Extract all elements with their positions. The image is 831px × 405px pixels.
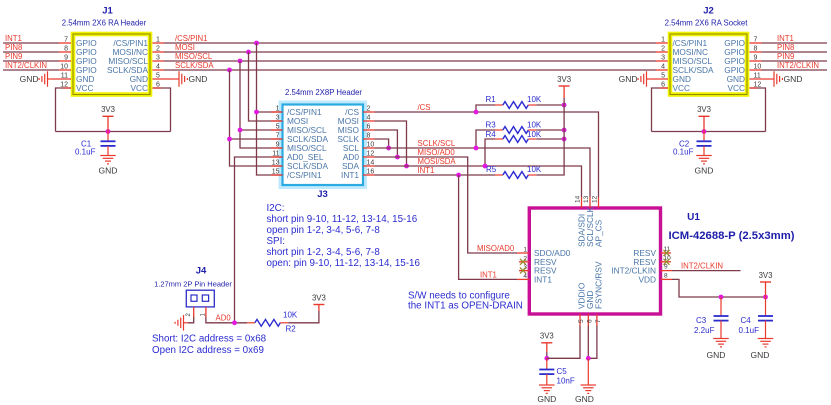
wire J2 pin 11 to ground — [750, 78, 770, 80]
svg-text:MISO/AD0: MISO/AD0 — [477, 244, 515, 253]
wire J1 pin 11 to ground — [52, 78, 71, 80]
svg-text:/CS/PIN1: /CS/PIN1 — [287, 170, 322, 180]
wire bus /CS/PIN1 — [164, 42, 656, 44]
svg-text:10K: 10K — [283, 311, 298, 320]
svg-text:INT1: INT1 — [777, 34, 794, 43]
svg-text:INT1: INT1 — [341, 170, 359, 180]
resistor R2 — [255, 319, 280, 326]
junction R3 tap on SCLK/SCL — [474, 146, 479, 151]
svg-text:GND: GND — [751, 350, 770, 360]
connector J1 2.54mm 2X6 RA Header — [60, 6, 160, 95]
U1 pin 1 stub — [517, 252, 529, 254]
U1 pin 10 stub — [661, 261, 672, 263]
svg-text:1: 1 — [661, 37, 665, 44]
wire J2 pin 12 VCC — [750, 88, 766, 132]
svg-text:VCC: VCC — [673, 83, 691, 93]
svg-text:R1: R1 — [486, 95, 497, 104]
svg-text:GND: GND — [99, 166, 118, 176]
svg-text:INT2/CLKIN: INT2/CLKIN — [5, 61, 47, 70]
wire PIN8 to J1 pin 8 — [3, 51, 59, 53]
annotation I2C address — [152, 334, 267, 357]
power 3V3 at pull-ups — [559, 85, 570, 87]
svg-text:3V3: 3V3 — [759, 271, 773, 280]
svg-text:8: 8 — [664, 272, 668, 279]
svg-text:R5: R5 — [486, 165, 497, 174]
junction 3V3 column at R4 — [562, 137, 567, 142]
resistor R4 — [503, 136, 528, 143]
connector J2 2.54mm 2X6 RA Socket — [661, 6, 761, 95]
svg-text:R3: R3 — [486, 121, 497, 130]
svg-text:2: 2 — [186, 313, 192, 317]
wire C2 to ground — [703, 146, 705, 151]
wire C1 to ground — [107, 146, 109, 151]
ground at J4 pin 2 — [175, 315, 188, 331]
ground below C4 — [758, 334, 774, 347]
U1 pin 13 stub — [589, 197, 591, 208]
wire SCLK/SCL to R3 — [476, 130, 495, 148]
wire C3 to ground — [720, 321, 722, 334]
wire U1 pin 6 GND down — [587, 326, 589, 359]
wire J1 pin 6 VCC — [153, 88, 171, 132]
wire J2 pin 5 to ground — [651, 78, 668, 80]
junction R4 tap on MOSI/SDA — [483, 164, 488, 169]
svg-text:4: 4 — [523, 273, 527, 280]
junction C4 and 3V3 — [763, 295, 768, 300]
junction U1 ground — [586, 356, 591, 361]
svg-text:J3: J3 — [317, 189, 328, 200]
wire R1 to 3V3 column — [536, 104, 564, 106]
wire bus MOSI — [164, 51, 656, 53]
svg-text:10K: 10K — [527, 121, 542, 130]
U1 pin 11 stub — [661, 252, 672, 254]
connector J3 2.54mm 2X8P Header — [272, 88, 375, 200]
svg-text:/CS: /CS — [418, 103, 431, 112]
wire VDDIO rail to U1 pin 5 — [547, 326, 580, 359]
junction at J3 pin 5 — [238, 128, 243, 133]
connector J4 1.27mm 2P Pin Header — [154, 266, 232, 307]
svg-text:PIN8: PIN8 — [5, 43, 22, 52]
power 3V3 at VDD — [760, 281, 771, 283]
svg-text:I2C:: I2C: — [267, 203, 285, 214]
svg-text:J2: J2 — [703, 6, 714, 17]
svg-text:2.2uF: 2.2uF — [694, 326, 715, 335]
svg-text:4: 4 — [661, 64, 665, 71]
svg-text:12: 12 — [592, 195, 599, 203]
junction J2 3V3 rail — [702, 129, 707, 134]
junction SCLK to SCLK/SCL — [386, 146, 391, 151]
svg-text:FSYNC/RSV: FSYNC/RSV — [594, 261, 604, 309]
svg-text:MISO/SCL: MISO/SCL — [175, 52, 213, 61]
wire C5 to ground — [546, 374, 548, 380]
wire MISO J3 pin 6 to MISO/AD0 — [375, 130, 398, 157]
ground below C3 — [713, 334, 729, 347]
wire to ground symbol — [587, 358, 589, 380]
svg-text:PIN8: PIN8 — [777, 43, 794, 52]
junction AD0 and AD0_SEL — [232, 320, 237, 325]
wire VDD from U1 pin 8 — [672, 279, 766, 297]
U1 pin 6 stub — [587, 314, 589, 326]
wire /CS from J3 pin 2 to U1 pin 12 — [375, 112, 599, 197]
U1 pin 9 stub — [661, 270, 673, 272]
U1 pin 4 stub — [517, 278, 529, 280]
U1 pin 12 stub — [598, 197, 600, 208]
junction 3V3 column at R3 — [562, 128, 567, 133]
junction J1 3V3 rail — [106, 129, 111, 134]
power 3V3 at J1 — [103, 115, 114, 117]
svg-text:3: 3 — [661, 55, 665, 62]
annotation S/W open-drain note — [408, 291, 523, 312]
wire bus SCLK/SDA — [164, 69, 656, 71]
capacitor C3 — [714, 316, 729, 321]
svg-text:R2: R2 — [286, 325, 297, 334]
svg-text:VCC: VCC — [727, 83, 745, 93]
junction C3 tap — [719, 295, 724, 300]
J4 pin 2 stub — [193, 307, 195, 317]
svg-text:INT1: INT1 — [534, 274, 552, 284]
svg-text:GND: GND — [537, 394, 556, 404]
wire 3V3 to VDDIO rail — [546, 352, 548, 358]
wire MOSI J3 pin 4 to MOSI/SDA — [375, 121, 407, 166]
svg-text:short pin 9-10, 11-12, 13-14,: short pin 9-10, 11-12, 13-14, 15-16 — [267, 214, 418, 225]
svg-text:GND: GND — [20, 74, 39, 84]
wire MISO/AD0 from J3 pin 12 to U1 pin 1 — [375, 157, 518, 253]
svg-text:2.54mm 2X6 RA Header: 2.54mm 2X6 RA Header — [62, 19, 147, 28]
wire AD0 to R2 — [247, 322, 255, 324]
wire to C2 — [703, 132, 705, 142]
U1 pin 8 stub — [661, 278, 673, 280]
wire J1 VCC rail — [56, 131, 171, 133]
svg-text:3V3: 3V3 — [697, 105, 711, 114]
U1 pin 2 stub — [519, 261, 529, 263]
ground below C5 — [539, 381, 555, 394]
wire J4 pin 2 to ground — [188, 317, 194, 323]
junction MISO to MISO/AD0 — [395, 155, 400, 160]
svg-text:GND: GND — [695, 166, 714, 176]
wire VDD to C4 — [765, 297, 767, 316]
svg-text:3V3: 3V3 — [557, 75, 571, 84]
svg-text:5: 5 — [578, 319, 585, 323]
ground at J1 pin 5 — [175, 71, 188, 87]
power 3V3 at VDDIO — [541, 342, 552, 344]
U1 pin 5 stub — [579, 314, 581, 326]
no-connect U1 pin 3 — [520, 268, 526, 274]
wire VDD to C3 — [720, 297, 722, 316]
junction 3V3 column at R1 — [562, 103, 567, 108]
svg-text:C4: C4 — [741, 316, 752, 325]
wire INT1 from J2 pin 7 — [762, 42, 828, 44]
svg-text:2: 2 — [661, 46, 665, 53]
wire R4 to 3V3 column — [536, 138, 564, 140]
ground below C1 — [100, 151, 116, 164]
svg-text:6: 6 — [586, 319, 593, 323]
svg-text:MISO/AD0: MISO/AD0 — [418, 148, 456, 157]
svg-text:open: pin 9-10, 11-12, 13-14,: open: pin 9-10, 11-12, 13-14, 15-16 — [267, 258, 421, 269]
svg-text:2.54mm 2X6 RA Socket: 2.54mm 2X6 RA Socket — [665, 19, 749, 28]
svg-text:3V3: 3V3 — [540, 332, 554, 341]
junction R1 tap on /CS — [474, 110, 479, 115]
resistor R1 — [503, 102, 528, 109]
svg-text:INT2/CLKIN: INT2/CLKIN — [777, 61, 819, 70]
U1 pin 14 stub — [581, 197, 583, 208]
svg-text:3V3: 3V3 — [101, 105, 115, 114]
wire INT1 to J1 pin 7 — [3, 42, 59, 44]
svg-text:VCC: VCC — [130, 83, 148, 93]
svg-text:short pin 1-2, 3-4, 5-6, 7-8: short pin 1-2, 3-4, 5-6, 7-8 — [267, 247, 381, 258]
wire AD0_SEL J3 pin 11 to AD0 net — [235, 157, 283, 323]
wire R3 to 3V3 column — [536, 129, 564, 131]
svg-text:C5: C5 — [557, 367, 568, 376]
wire PIN8 from J2 pin 8 — [762, 51, 828, 53]
svg-text:0.1uF: 0.1uF — [673, 148, 694, 157]
svg-text:INT2/CLKIN: INT2/CLKIN — [681, 262, 723, 271]
svg-text:the INT1 as OPEN-DRAIN: the INT1 as OPEN-DRAIN — [408, 301, 523, 312]
svg-text:2.54mm 2X8P Header: 2.54mm 2X8P Header — [285, 88, 362, 97]
svg-text:10K: 10K — [527, 165, 542, 174]
junction at J3 pin 1 — [254, 110, 259, 115]
svg-text:MOSI/SDA: MOSI/SDA — [418, 157, 457, 166]
svg-text:/CS/PIN1: /CS/PIN1 — [175, 34, 208, 43]
svg-text:VCC: VCC — [76, 83, 94, 93]
svg-text:SCLK/SCL: SCLK/SCL — [418, 139, 456, 148]
wire R2 to 3V3 — [288, 311, 319, 323]
ground at J2 pin 11 — [770, 71, 783, 87]
wire SCLK/SDA bus to J3 pins 7 and 13 — [230, 70, 283, 166]
U1 left pin names — [534, 248, 571, 284]
svg-text:3V3: 3V3 — [312, 293, 326, 302]
svg-text:PIN9: PIN9 — [777, 52, 794, 61]
svg-text:10nF: 10nF — [557, 377, 575, 386]
svg-text:ICM-42688-P (2.5x3mm): ICM-42688-P (2.5x3mm) — [669, 230, 795, 242]
wire AD0 from J4 pin 1 — [206, 317, 247, 323]
ground below C2 — [696, 151, 712, 164]
svg-text:GND: GND — [575, 394, 594, 404]
wire INT1 to R5 — [495, 174, 503, 176]
svg-text:C3: C3 — [696, 316, 707, 325]
junction SCLK bus to J3 — [227, 68, 232, 73]
svg-text:9: 9 — [664, 264, 668, 271]
junction MISO bus to J3 — [238, 59, 243, 64]
svg-text:14: 14 — [575, 195, 582, 203]
wire R5 to 3V3 column — [536, 98, 564, 175]
no-connect U1 pin 11 — [664, 250, 670, 256]
svg-text:AP_CS: AP_CS — [594, 219, 604, 247]
capacitor C5 — [539, 370, 554, 375]
U1 top pin names — [577, 206, 604, 247]
wire /CS/PIN1 bus to J3 pins 1 and 15 — [257, 43, 283, 175]
svg-text:MOSI: MOSI — [175, 43, 195, 52]
junction VDDIO C5 — [544, 356, 549, 361]
svg-text:U1: U1 — [687, 212, 700, 223]
wire /CS to R1 — [476, 105, 495, 112]
U1 bottom pin names — [577, 261, 604, 309]
wire bus MISO/SCL — [164, 60, 656, 62]
junction MOSI bus to J3 — [246, 50, 251, 55]
svg-text:J1: J1 — [102, 6, 113, 17]
capacitor C1 — [101, 141, 116, 146]
no-connect U1 pin 2 — [520, 259, 526, 265]
svg-text:GND: GND — [189, 74, 208, 84]
svg-text:7: 7 — [595, 319, 602, 323]
U1 pin 3 stub — [519, 270, 529, 272]
svg-text:VDD: VDD — [638, 274, 656, 284]
ground at J2 pin 5 — [638, 71, 651, 87]
svg-text:AD0: AD0 — [216, 314, 232, 323]
wire PIN9 from J2 pin 9 — [762, 60, 828, 62]
power 3V3 at R2 — [313, 304, 324, 306]
svg-text:SCLK/SDA: SCLK/SDA — [175, 61, 214, 70]
svg-text:Short: I2C address = 0x68: Short: I2C address = 0x68 — [152, 334, 267, 345]
svg-text:1: 1 — [523, 247, 527, 254]
svg-text:INT1: INT1 — [5, 34, 22, 43]
svg-text:GND: GND — [707, 350, 726, 360]
wire to C1 — [107, 132, 109, 142]
svg-text:0.1uF: 0.1uF — [739, 326, 760, 335]
wire PIN9 to J1 pin 9 — [3, 60, 59, 62]
J4 pin 1 stub — [205, 307, 207, 317]
resistor R3 — [503, 127, 528, 134]
wire MOSI bus to J3 pin 3 — [249, 52, 283, 121]
wire SCLK J3 pin 8 to SCLK/SCL — [375, 139, 389, 148]
svg-text:10K: 10K — [527, 130, 542, 139]
U1 pin 7 stub — [596, 314, 598, 326]
U1 right pin names — [611, 248, 656, 284]
capacitor C4 — [758, 316, 773, 321]
wire MOSI/SDA from J3 pin 14 to U1 pin 14 — [375, 166, 582, 197]
wire U1 pin 7 FSYNC to ground — [588, 326, 597, 359]
svg-text:INT1: INT1 — [480, 271, 497, 280]
wire INT1 down to U1 pin 4 — [459, 175, 517, 279]
svg-text:1.27mm 2P Pin Header: 1.27mm 2P Pin Header — [154, 280, 232, 289]
ground at J1 pin 11 — [39, 71, 52, 87]
IC U1 ICM-42688-P — [529, 208, 794, 314]
wire to C5 — [546, 358, 548, 369]
svg-text:open pin 1-2, 3-4, 5-6, 7-8: open pin 1-2, 3-4, 5-6, 7-8 — [267, 225, 381, 236]
wire J1 pin 5 to ground — [153, 78, 175, 80]
svg-text:INT1: INT1 — [418, 166, 435, 175]
svg-text:GND: GND — [619, 74, 638, 84]
wire SCLK/SCL from J3 pin 10 to U1 pin 13 — [375, 148, 591, 197]
wire J2 VCC rail — [652, 131, 766, 133]
wire J1 pin 12 VCC — [56, 88, 72, 132]
svg-text:GND: GND — [784, 74, 803, 84]
svg-text:PIN9: PIN9 — [5, 52, 22, 61]
junction /CS bus to J3 — [254, 41, 259, 46]
wire INT2/CLKIN to J1 pin 10 — [3, 69, 59, 71]
svg-text:13: 13 — [583, 195, 590, 203]
svg-text:SPI:: SPI: — [267, 236, 286, 247]
no-connect U1 pin 10 — [664, 259, 670, 265]
svg-text:10K: 10K — [527, 95, 542, 104]
wire MOSI/SDA to R4 — [485, 139, 495, 166]
capacitor C2 — [697, 141, 712, 146]
junction INT1 to U1 — [456, 173, 461, 178]
svg-text:R4: R4 — [486, 130, 497, 139]
wire INT1 from J3 pin 16 — [375, 174, 496, 176]
junction MOSI to MOSI/SDA — [404, 164, 409, 169]
wire J2 pin 6 VCC — [652, 88, 669, 132]
power 3V3 at J2 — [699, 115, 710, 117]
resistor R5 — [503, 172, 528, 179]
annotation I2C SPI jumper instructions — [267, 203, 421, 269]
wire MISO/SCL bus to J3 pins 5 and 9 — [240, 61, 283, 148]
svg-text:0.1uF: 0.1uF — [75, 148, 96, 157]
wire C4 to ground — [765, 321, 767, 334]
ground below U1 — [581, 381, 597, 394]
wire INT2/CLKIN from U1 pin 9 — [672, 270, 741, 272]
svg-text:J4: J4 — [196, 266, 207, 277]
wire INT2/CLKIN from J2 pin 10 — [762, 69, 828, 71]
svg-text:Open I2C address = 0x69: Open I2C address = 0x69 — [152, 345, 264, 356]
junction at J3 pin 7 — [227, 137, 232, 142]
